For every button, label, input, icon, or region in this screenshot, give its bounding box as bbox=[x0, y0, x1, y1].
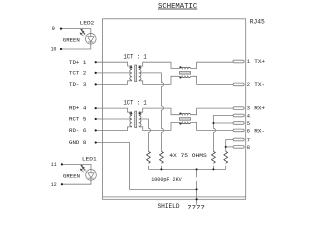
svg-text:TCT 2: TCT 2 bbox=[69, 71, 86, 77]
svg-text:TX-: TX- bbox=[254, 82, 265, 88]
svg-text:1CT : 1: 1CT : 1 bbox=[124, 54, 148, 61]
svg-text:12: 12 bbox=[51, 182, 57, 188]
svg-text:RJ45: RJ45 bbox=[250, 19, 265, 26]
svg-text:TD+ 1: TD+ 1 bbox=[69, 60, 86, 66]
svg-text:TX+: TX+ bbox=[254, 59, 265, 65]
svg-text:1000pF 2KV: 1000pF 2KV bbox=[151, 177, 182, 183]
svg-text:TD- 3: TD- 3 bbox=[69, 82, 86, 88]
svg-text:LED2: LED2 bbox=[80, 21, 95, 27]
svg-text:1: 1 bbox=[247, 59, 250, 65]
svg-text:LED1: LED1 bbox=[82, 157, 97, 163]
svg-text:4X 75 OHMS: 4X 75 OHMS bbox=[169, 153, 207, 159]
svg-text:SHIELD: SHIELD bbox=[158, 203, 180, 210]
svg-text:8: 8 bbox=[247, 145, 250, 151]
svg-text:9: 9 bbox=[52, 26, 55, 32]
svg-text:7: 7 bbox=[247, 138, 250, 144]
svg-text:SCHEMATIC: SCHEMATIC bbox=[158, 3, 197, 11]
svg-text:GREEN: GREEN bbox=[63, 173, 80, 179]
svg-text:RD+ 4: RD+ 4 bbox=[69, 106, 86, 112]
svg-text:4: 4 bbox=[247, 114, 250, 120]
svg-text:6: 6 bbox=[247, 128, 250, 134]
svg-text:RX-: RX- bbox=[254, 128, 265, 134]
svg-text:2: 2 bbox=[247, 82, 250, 88]
svg-text:RD- 6: RD- 6 bbox=[69, 128, 86, 134]
svg-text:RCT 5: RCT 5 bbox=[69, 117, 86, 123]
svg-text:GREEN: GREEN bbox=[63, 38, 80, 44]
svg-text:3: 3 bbox=[247, 106, 250, 112]
svg-text:11: 11 bbox=[51, 162, 57, 168]
svg-text:GND 8: GND 8 bbox=[69, 140, 86, 146]
svg-text:5: 5 bbox=[247, 121, 250, 127]
svg-text:1CT : 1: 1CT : 1 bbox=[124, 100, 148, 107]
svg-text:10: 10 bbox=[51, 47, 57, 53]
svg-text:RX+: RX+ bbox=[254, 106, 265, 112]
